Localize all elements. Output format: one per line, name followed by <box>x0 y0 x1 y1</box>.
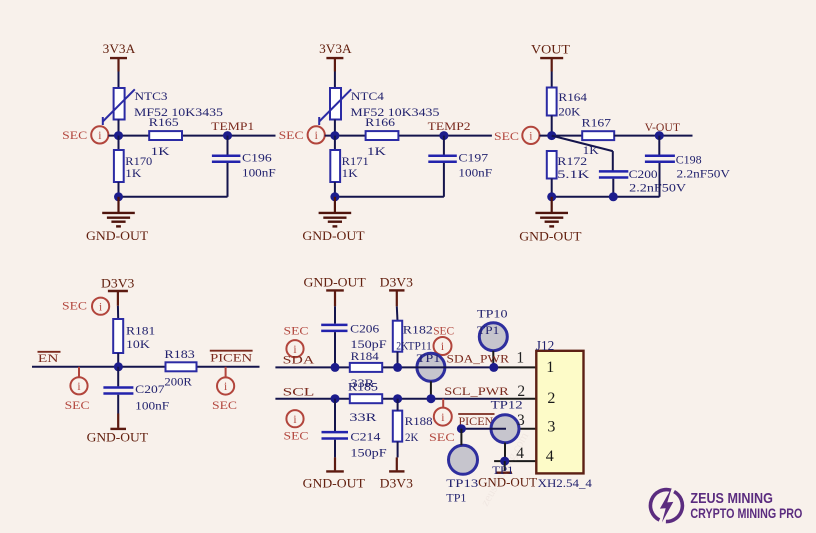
svg-text:2.2nF50V: 2.2nF50V <box>677 166 731 180</box>
svg-text:i: i <box>98 130 101 142</box>
resistor R188 body <box>393 411 402 442</box>
node junction <box>114 131 123 140</box>
resistor R184 body <box>350 363 382 372</box>
resistor R170 body <box>118 136 120 150</box>
resistor R182 body <box>393 321 402 352</box>
svg-text:3: 3 <box>517 412 525 429</box>
wire TP10 stem <box>492 351 494 368</box>
svg-text:3V3A: 3V3A <box>103 42 136 56</box>
svg-text:100nF: 100nF <box>135 399 169 413</box>
svg-text:1: 1 <box>546 359 554 376</box>
power port GND-OUT down <box>117 414 119 428</box>
node junction C214/SCL <box>331 394 340 403</box>
wire resistor to bottom node <box>334 182 336 197</box>
svg-text:SEC: SEC <box>429 430 455 444</box>
svg-text:VOUT: VOUT <box>531 42 570 56</box>
svg-text:R167: R167 <box>582 115 612 129</box>
wire power to thermistor <box>118 72 120 90</box>
svg-text:3V3A: 3V3A <box>319 42 352 56</box>
wire TP13 stem <box>460 429 462 446</box>
svg-text:R166: R166 <box>365 115 395 129</box>
svg-text:C198: C198 <box>676 152 702 166</box>
power port GND-OUT pin4 <box>504 461 506 471</box>
wire node to TEMP <box>108 135 275 137</box>
svg-text:4: 4 <box>546 448 554 465</box>
logo ring <box>666 492 683 522</box>
svg-text:NTC4: NTC4 <box>351 89 384 103</box>
wire resistor to bottom node <box>118 182 120 197</box>
wire power to thermistor <box>334 72 336 90</box>
svg-text:ZEUS MINING: ZEUS MINING <box>690 491 773 507</box>
ground symbol <box>319 213 352 227</box>
svg-text:i: i <box>441 341 444 353</box>
SEC directive circle at (225.6,386) <box>217 377 234 394</box>
SEC directive circle at (295,348.7) <box>286 340 303 357</box>
svg-text:C206: C206 <box>350 321 379 335</box>
thermistor NTC4 diagonal <box>319 89 351 121</box>
svg-text:SEC: SEC <box>494 129 519 143</box>
wire SCL bus <box>275 398 500 400</box>
wire diagonal node to C200 <box>552 136 613 152</box>
capacitor C206 <box>321 324 347 327</box>
SEC directive circle at (100.6,306.2) <box>92 298 109 315</box>
svg-text:R188: R188 <box>405 414 433 428</box>
svg-text:C197: C197 <box>458 150 488 164</box>
svg-text:100nF: 100nF <box>458 166 492 180</box>
SEC directive circle at (530.9,135.4) <box>522 127 539 144</box>
node junction <box>114 362 123 371</box>
wire node to R167 <box>540 135 583 137</box>
svg-text:TEMP2: TEMP2 <box>428 119 471 133</box>
svg-text:SCL: SCL <box>283 385 315 399</box>
svg-text:GND-OUT: GND-OUT <box>519 230 582 244</box>
node C200 junction <box>609 192 618 201</box>
svg-text:C214: C214 <box>350 429 380 443</box>
svg-text:2K: 2K <box>405 430 419 444</box>
thermistor NTC3 diagonal <box>103 89 135 121</box>
wire thermistor to node <box>118 120 120 137</box>
capacitor C197 <box>443 136 445 155</box>
bottom wire <box>552 196 660 198</box>
svg-text:SEC: SEC <box>433 323 454 337</box>
resistor R164 body <box>547 88 557 116</box>
SEC directive circle at (99.8,134.9) <box>91 126 108 143</box>
wire R172 to bottom node <box>551 179 553 197</box>
svg-text:GND-OUT: GND-OUT <box>86 229 149 243</box>
thermistor NTC4 body <box>330 88 341 120</box>
bottom node junction <box>114 192 123 201</box>
capacitor C196 <box>227 136 229 155</box>
node junction C206/SDA <box>331 363 340 372</box>
svg-text:R183: R183 <box>164 347 194 361</box>
svg-text:200R: 200R <box>164 374 192 388</box>
svg-text:GND-OUT: GND-OUT <box>87 430 149 444</box>
capacitor C198 <box>658 136 660 155</box>
pin line J12 pin1 <box>494 366 536 368</box>
thermistor NTC3 body <box>114 88 125 120</box>
svg-text:EN: EN <box>38 351 59 365</box>
wire SDA bus <box>275 366 494 368</box>
resistor R181 body <box>113 319 123 353</box>
wire TP11 stem <box>430 381 432 398</box>
wire to R182 <box>396 306 399 321</box>
svg-text:R185: R185 <box>348 380 378 394</box>
svg-text:TP1: TP1 <box>446 490 466 504</box>
node junction pin4 <box>500 457 509 466</box>
svg-text:1K: 1K <box>367 144 386 158</box>
capacitor C214 <box>334 399 336 431</box>
svg-text:SEC: SEC <box>62 128 87 142</box>
svg-text:XH2.54_4: XH2.54_4 <box>538 476 592 490</box>
bottom wire <box>335 196 444 198</box>
svg-text:SEC: SEC <box>284 323 309 337</box>
wire to C206 <box>334 306 336 323</box>
svg-text:SDA_PWR: SDA_PWR <box>447 351 510 365</box>
SEC directive circle at (316.2,134.9) <box>308 126 325 143</box>
svg-text:R164: R164 <box>558 90 587 104</box>
resistor R166 body <box>366 131 399 140</box>
wire TP12 stem <box>504 443 506 461</box>
svg-text:D3V3: D3V3 <box>101 276 134 290</box>
svg-text:J12: J12 <box>536 339 555 354</box>
svg-text:20K: 20K <box>558 104 580 118</box>
svg-text:2: 2 <box>547 390 555 407</box>
node junction TP11/SCL <box>427 394 436 403</box>
resistor R183 body <box>166 362 197 371</box>
svg-text:10K: 10K <box>126 337 150 351</box>
svg-text:NTC3: NTC3 <box>135 89 168 103</box>
node junction <box>330 131 339 140</box>
svg-text:3: 3 <box>547 418 555 435</box>
node junction PICEN <box>457 424 466 433</box>
SEC directive circle at (295,418.7) <box>286 410 303 427</box>
svg-text:TP13: TP13 <box>446 476 478 490</box>
svg-text:SEC: SEC <box>62 298 87 312</box>
svg-text:D3V3: D3V3 <box>380 476 413 490</box>
svg-text:SEC: SEC <box>279 128 304 142</box>
wire R182 to SDA line <box>397 352 399 368</box>
SEC stem on SCL <box>442 399 444 408</box>
svg-text:i: i <box>315 130 318 142</box>
resistor R165 body <box>149 131 182 140</box>
bottom node junction <box>330 192 339 201</box>
test point TP11 circle <box>417 353 445 381</box>
svg-text:SEC: SEC <box>65 398 90 412</box>
test point TP10 circle <box>479 323 507 351</box>
wire power to R164 <box>551 72 553 89</box>
ground symbol <box>535 213 568 227</box>
svg-text:1: 1 <box>516 350 524 367</box>
wire PICEN to TP12 <box>461 428 506 430</box>
svg-text:C196: C196 <box>242 150 272 164</box>
wire EN bus <box>32 366 260 368</box>
power port D3V3 bottom <box>396 457 398 470</box>
svg-text:SEC: SEC <box>284 428 309 442</box>
wire ground stem <box>334 197 336 212</box>
svg-text:R184: R184 <box>351 349 379 363</box>
wire power to R181 <box>117 306 119 320</box>
bottom node junction <box>547 192 556 201</box>
svg-text:C200: C200 <box>629 167 658 181</box>
svg-text:GND-OUT: GND-OUT <box>302 229 365 243</box>
wire node to TEMP <box>325 135 492 137</box>
svg-text:i: i <box>99 301 102 313</box>
wire ground stem <box>551 197 553 212</box>
svg-text:150pF: 150pF <box>350 445 387 459</box>
resistor R171 body <box>334 136 336 150</box>
svg-text:i: i <box>529 131 532 143</box>
svg-text:CRYPTO MINING PRO: CRYPTO MINING PRO <box>690 506 802 521</box>
svg-text:SDA: SDA <box>283 353 315 367</box>
svg-text:GND-OUT: GND-OUT <box>303 477 366 491</box>
svg-text:TP10: TP10 <box>477 307 508 321</box>
wire R188 pins <box>397 399 399 411</box>
svg-text:TEMP1: TEMP1 <box>211 119 254 133</box>
capacitor C207 <box>117 367 119 387</box>
resistor R172 body <box>547 151 557 179</box>
node junction R182/SDA <box>393 363 402 372</box>
svg-text:1K: 1K <box>151 144 170 158</box>
svg-text:SCL_PWR: SCL_PWR <box>444 384 508 398</box>
svg-text:2.2nF50V: 2.2nF50V <box>629 180 686 194</box>
resistor R185 body <box>350 394 382 403</box>
svg-text:i: i <box>224 381 227 393</box>
test point TP13 circle <box>449 445 478 474</box>
node junction TP10/SDA <box>489 363 498 372</box>
node TEMP2 junction <box>439 131 448 140</box>
svg-text:SEC: SEC <box>212 398 237 412</box>
capacitor C200 <box>599 170 628 173</box>
wire R167 to V-OUT <box>614 135 692 137</box>
svg-text:i: i <box>441 412 444 424</box>
logo lightning bolt <box>660 488 673 523</box>
resistor R167 body <box>582 131 614 140</box>
svg-text:C207: C207 <box>135 382 164 396</box>
wire R164 to node <box>551 116 553 137</box>
power port GND-OUT bottom <box>334 457 336 470</box>
svg-text:GND-OUT: GND-OUT <box>304 275 367 289</box>
svg-text:33R: 33R <box>349 410 376 424</box>
svg-text:R172: R172 <box>557 154 587 168</box>
svg-text:100nF: 100nF <box>242 166 276 180</box>
svg-text:TP1: TP1 <box>477 323 499 337</box>
node junction R188/SCL <box>393 394 402 403</box>
svg-text:R165: R165 <box>149 115 179 129</box>
connector J12 body <box>536 351 583 474</box>
node V-OUT junction <box>655 131 664 140</box>
svg-text:PICEN: PICEN <box>210 351 253 365</box>
svg-text:i: i <box>77 381 80 393</box>
SEC circle hidden by TP11 <box>434 337 452 355</box>
test point TP12 circle <box>491 415 519 443</box>
svg-text:V-OUT: V-OUT <box>645 120 681 134</box>
SEC stem right <box>225 367 227 378</box>
SEC directive circle <box>434 408 452 426</box>
wire thermistor to node <box>334 120 336 137</box>
svg-text:1K: 1K <box>342 166 358 180</box>
ground symbol <box>102 213 135 227</box>
wire ground stem <box>117 197 119 212</box>
node TEMP1 junction <box>223 131 232 140</box>
svg-text:i: i <box>293 414 296 426</box>
svg-text:5.1K: 5.1K <box>557 167 589 181</box>
SEC stem left <box>78 367 80 377</box>
svg-text:R181: R181 <box>126 323 155 337</box>
svg-text:TP1: TP1 <box>417 351 441 365</box>
svg-text:D3V3: D3V3 <box>380 275 413 289</box>
pin line J12 pin2 <box>500 398 536 400</box>
svg-text:2: 2 <box>517 383 525 400</box>
svg-text:1K: 1K <box>125 166 141 180</box>
wire R181 to EN line <box>117 353 119 367</box>
node junction <box>547 131 556 140</box>
pin line J12 pin3 under TP12 <box>505 428 536 430</box>
svg-text:R182: R182 <box>403 322 433 336</box>
pin line J12 pin4 <box>494 460 536 462</box>
bottom wire <box>119 196 228 198</box>
SEC directive circle at (79,385.8) <box>70 377 87 394</box>
